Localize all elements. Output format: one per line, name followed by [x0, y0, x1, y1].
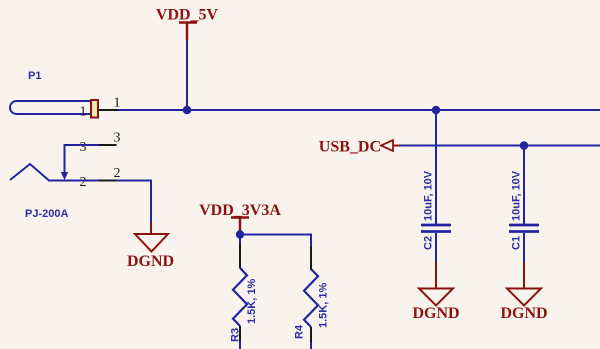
svg-text:C1: C1 [511, 236, 523, 250]
svg-text:P1: P1 [28, 70, 41, 82]
svg-text:10uF, 10V: 10uF, 10V [511, 170, 523, 221]
wire C1 top [523, 146, 525, 225]
junction C2 on main wire [432, 106, 441, 115]
node USB_DC port arrow [381, 140, 393, 151]
wire to R3 [239, 235, 241, 244]
connector P1 switch contact 3 [65, 144, 100, 146]
power symbol VDD_3V3A [199, 202, 281, 233]
svg-text:USB_DC: USB_DC [319, 139, 381, 156]
ground stub C2 [435, 263, 437, 288]
svg-text:1.5K, 1%: 1.5K, 1% [318, 283, 330, 328]
pin 1 wire (main +5V rail) [118, 109, 600, 111]
connector P1 spring contact [10, 164, 49, 181]
ground stub C1 [523, 263, 525, 288]
ground DGND C1 [500, 289, 547, 323]
wire C1 bottom [523, 233, 525, 263]
svg-text:3: 3 [80, 140, 87, 155]
svg-text:2: 2 [114, 166, 121, 181]
node USB_DC port stub [393, 145, 400, 147]
svg-text:DGND: DGND [412, 305, 459, 322]
wire pin2 to DGND vertical [150, 181, 152, 223]
capacitor C1 [509, 170, 539, 250]
wire R4 bottom [310, 343, 312, 349]
svg-text:1: 1 [80, 105, 87, 120]
connector P1 switch arm [64, 144, 66, 173]
wire VDD_5V vertical [186, 40, 188, 110]
ground stub P1 [150, 222, 152, 234]
ground DGND P1 [127, 234, 174, 270]
svg-text:10uF, 10V: 10uF, 10V [423, 170, 435, 221]
capacitor C2 [421, 170, 451, 250]
pin 2 [99, 180, 117, 182]
pin 3 [99, 144, 117, 146]
wire pin2 to DGND horizontal [117, 180, 152, 182]
wire R3 bottom [239, 341, 241, 349]
wire USB_DC horizontal [400, 145, 600, 147]
resistor R3 pin bottom [239, 326, 241, 341]
svg-text:1.5K, 1%: 1.5K, 1% [246, 279, 258, 324]
ground DGND C2 [412, 289, 459, 323]
wire C2 top [435, 110, 437, 224]
svg-text:C2: C2 [423, 236, 435, 250]
junction VDD_3V3A [236, 230, 244, 238]
resistor R4 pin bottom [310, 327, 312, 343]
resistor R4 pin top [310, 247, 312, 270]
junction C1 on USB_DC wire [520, 141, 529, 150]
pin 1 [99, 109, 118, 111]
svg-text:1: 1 [114, 96, 121, 111]
wire 3V3A down to R4 [310, 235, 312, 248]
connector P1 body [91, 100, 98, 118]
junction VDD_5V on main wire [183, 106, 192, 115]
svg-text:VDD_5V: VDD_5V [156, 7, 219, 24]
connector P1 contact 2 lead [48, 180, 99, 182]
wire 3V3A horizontal [240, 234, 312, 236]
power symbol VDD_5V [156, 7, 219, 41]
svg-text:PJ-200A: PJ-200A [25, 208, 68, 220]
resistor R4 [294, 269, 330, 339]
svg-text:R4: R4 [294, 324, 306, 339]
svg-text:DGND: DGND [500, 305, 547, 322]
connector P1 switch arrowhead [61, 172, 68, 180]
svg-text:3: 3 [114, 131, 121, 146]
wire C2 bottom [435, 233, 437, 263]
svg-text:DGND: DGND [127, 253, 174, 270]
resistor R3 pin top [239, 243, 241, 268]
svg-text:2: 2 [80, 175, 87, 190]
connector P1 barrel sleeve [10, 101, 92, 114]
resistor R3 [230, 268, 259, 342]
